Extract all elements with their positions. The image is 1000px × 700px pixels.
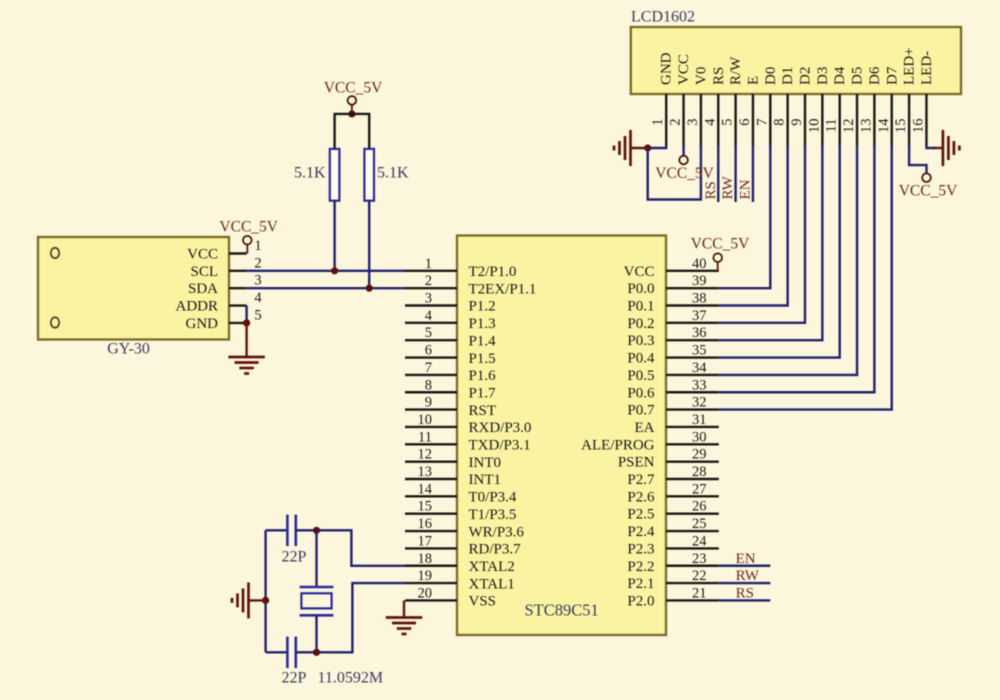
svg-text:P2.6: P2.6	[627, 489, 655, 505]
svg-text:33: 33	[692, 377, 707, 393]
junction R1-SCL	[331, 267, 338, 274]
U2 pin 10 D3 stub	[821, 94, 823, 146]
svg-text:RST: RST	[469, 403, 497, 419]
svg-text:VCC: VCC	[676, 54, 692, 85]
svg-text:XTAL1: XTAL1	[469, 576, 515, 592]
power port VCC_5V at resistors circle	[348, 96, 357, 105]
svg-text:14: 14	[418, 481, 433, 497]
U2 pin 7 D0 stub	[769, 94, 771, 146]
svg-text:20: 20	[418, 585, 433, 601]
U2 pin 2 VCC stub	[682, 94, 684, 146]
svg-text:34: 34	[692, 360, 707, 376]
svg-text:P2.1: P2.1	[627, 576, 654, 592]
U1 pin 29 PSEN stub	[666, 460, 719, 462]
svg-text:LCD1602: LCD1602	[631, 9, 695, 26]
U2 pin 5 R/W stub	[734, 94, 736, 146]
U2 pin 1 GND stub	[665, 94, 667, 146]
svg-text:PSEN: PSEN	[618, 455, 655, 471]
sensor module U3 GY-30 body	[38, 237, 229, 340]
U2 pin 3 V0 stub	[700, 94, 702, 146]
svg-text:LED-: LED-	[919, 51, 935, 85]
svg-text:RD/P3.7: RD/P3.7	[469, 542, 522, 558]
svg-text:6: 6	[425, 343, 432, 359]
svg-text:28: 28	[692, 464, 707, 480]
wire C2 to XTAL1 corner	[296, 583, 405, 652]
ground lead at crystal	[249, 599, 266, 601]
wire net SCL (U3 pin2 to U1 pin1)	[247, 270, 405, 272]
svg-text:P0.3: P0.3	[627, 333, 654, 349]
U1 pin 3 P1.2 stub	[405, 304, 457, 306]
svg-text:VCC_5V: VCC_5V	[691, 236, 750, 253]
svg-text:5: 5	[254, 307, 261, 323]
svg-text:5.1K: 5.1K	[294, 165, 326, 182]
capacitor C1 22P plates	[286, 515, 289, 546]
junction U3 GND node	[243, 319, 250, 326]
svg-text:D6: D6	[867, 66, 883, 85]
U1 pin 26 P2.5 stub	[666, 513, 719, 515]
svg-text:D0: D0	[763, 67, 779, 85]
U1 pin 4 P1.3 stub	[405, 322, 457, 324]
display U2 LCD1602 body	[631, 27, 961, 94]
wire D1 (U2 pin 8 to U1 pin 38)	[719, 146, 788, 306]
power port VCC_5V at U3 pin1 circle	[243, 236, 252, 245]
U1 pin 21 P2.0 stub	[666, 599, 719, 601]
power port VCC_5V at U2 pin2 circle	[679, 156, 688, 165]
svg-text:17: 17	[418, 533, 433, 549]
wire net RW at U2 pin 5	[734, 146, 736, 202]
U1 pin 30 ALE/PROG stub	[666, 443, 719, 445]
svg-text:GND: GND	[186, 316, 219, 332]
wire D2 (U2 pin 9 to U1 pin 37)	[719, 146, 805, 323]
U1 pin 32 P0.7 stub	[666, 408, 719, 410]
svg-text:22P: 22P	[282, 549, 307, 566]
svg-text:V0: V0	[693, 67, 709, 85]
U1 pin 36 P0.3 stub	[666, 339, 719, 341]
U1 pin 1 T2/P1.0 stub	[405, 270, 457, 272]
wire crystal top lead	[315, 530, 317, 587]
U1 pin 19 XTAL1 stub	[405, 582, 457, 584]
wire net SDA (U3 pin3 to U1 pin2)	[247, 287, 405, 289]
svg-text:VCC_5V: VCC_5V	[324, 80, 383, 97]
U1 pin 13 INT1 stub	[405, 478, 457, 480]
svg-text:13: 13	[418, 464, 433, 480]
svg-text:R/W: R/W	[728, 56, 744, 85]
svg-text:P0.5: P0.5	[627, 368, 654, 384]
U1 pin 24 P2.3 stub	[666, 547, 719, 549]
ground lead at LCD left	[631, 147, 648, 149]
U1 pin 35 P0.4 stub	[666, 356, 719, 358]
svg-text:16: 16	[418, 516, 433, 532]
power port VCC_5V at U2 pin15 circle	[922, 173, 931, 182]
ground symbol at crystal	[247, 582, 250, 618]
svg-text:22: 22	[692, 568, 707, 584]
svg-text:GY-30: GY-30	[107, 341, 150, 358]
U1 pin 17 RD/P3.7 stub	[405, 547, 457, 549]
U1 pin 20 VSS stub	[405, 599, 457, 601]
svg-text:4: 4	[702, 118, 718, 126]
svg-text:P1.7: P1.7	[469, 385, 497, 401]
U1 pin 9 RST stub	[405, 408, 457, 410]
svg-text:SDA: SDA	[188, 281, 218, 297]
svg-text:EA: EA	[635, 420, 655, 436]
wire D4 (U2 pin 11 to U1 pin 35)	[719, 146, 840, 358]
svg-text:26: 26	[692, 499, 707, 515]
wire net RS at U2 pin 4	[717, 146, 719, 202]
U3 mounting hole pin bottom	[51, 317, 59, 327]
crystal Y1 top plate	[300, 586, 334, 589]
svg-text:T2/P1.0: T2/P1.0	[469, 264, 517, 280]
svg-text:4: 4	[425, 308, 433, 324]
crystal Y1 body	[301, 593, 331, 608]
svg-text:D7: D7	[884, 66, 900, 85]
U1 pin 7 P1.6 stub	[405, 374, 457, 376]
svg-text:3: 3	[425, 291, 432, 307]
wire U2 pin15 LED+ to power	[909, 146, 926, 173]
svg-text:P1.3: P1.3	[469, 316, 496, 332]
svg-text:6: 6	[737, 119, 753, 126]
U1 pin 5 P1.4 stub	[405, 339, 457, 341]
U1 pin 23 P2.2 stub	[666, 565, 719, 567]
U2 pin 13 D6 stub	[873, 94, 875, 146]
U2 pin 15 LED+ stub	[908, 94, 910, 146]
U2 pin 8 D1 stub	[786, 94, 788, 146]
svg-text:VCC_5V: VCC_5V	[219, 219, 278, 236]
svg-text:3: 3	[254, 273, 261, 289]
svg-text:VCC_5V: VCC_5V	[899, 183, 958, 200]
svg-text:INT1: INT1	[469, 472, 502, 488]
svg-text:5.1K: 5.1K	[377, 165, 409, 182]
svg-text:T0/P3.4: T0/P3.4	[469, 490, 517, 506]
U1 pin 37 P0.2 stub	[666, 322, 719, 324]
wire U2 pin1 to ground	[648, 146, 667, 148]
svg-text:36: 36	[692, 325, 707, 341]
U3 pin 3 SDA stub	[229, 287, 247, 289]
U1 pin 2 T2EX/P1.1 stub	[405, 287, 457, 289]
svg-text:P2.0: P2.0	[627, 593, 654, 609]
svg-text:T2EX/P1.1: T2EX/P1.1	[469, 281, 537, 297]
svg-text:RW: RW	[736, 568, 760, 584]
svg-text:9: 9	[789, 119, 805, 126]
resistor R2 5.1K body	[364, 149, 374, 201]
U1 pin 39 P0.0 stub	[666, 287, 719, 289]
power port VCC_5V at U1 pin40 circle	[713, 253, 722, 262]
svg-text:P1.5: P1.5	[469, 351, 496, 367]
svg-text:ALE/PROG: ALE/PROG	[581, 437, 655, 453]
U1 pin 11 TXD/P3.1 stub	[405, 443, 457, 445]
junction R2-SDA	[366, 285, 373, 292]
svg-text:29: 29	[692, 447, 707, 463]
svg-text:32: 32	[692, 395, 707, 411]
svg-text:P0.4: P0.4	[627, 351, 655, 367]
U2 pin 11 D4 stub	[839, 94, 841, 146]
svg-text:39: 39	[692, 273, 707, 289]
wire net EN at U2 pin 6	[752, 146, 754, 202]
svg-text:12: 12	[418, 447, 433, 463]
svg-text:SCL: SCL	[190, 264, 218, 280]
wire R2 bottom to SDA	[368, 201, 370, 289]
ground lead at LCD right	[933, 147, 943, 149]
U1 pin 18 XTAL2 stub	[405, 565, 457, 567]
wire U2 pin2 to power	[682, 146, 684, 156]
svg-text:30: 30	[692, 429, 707, 445]
U3 pin 1 VCC stub	[229, 252, 247, 254]
svg-text:D4: D4	[832, 66, 848, 85]
ground symbol at LCD left	[629, 130, 632, 166]
wire V0 to ground loop	[648, 146, 701, 200]
U1 pin 31 EA stub	[666, 426, 719, 428]
U1 pin 25 P2.4 stub	[666, 530, 719, 532]
svg-text:15: 15	[418, 499, 433, 515]
svg-text:P1.6: P1.6	[469, 368, 497, 384]
svg-text:13: 13	[858, 119, 874, 134]
svg-text:P1.4: P1.4	[469, 333, 497, 349]
svg-text:31: 31	[692, 412, 707, 428]
svg-text:P2.2: P2.2	[627, 559, 654, 575]
power port VCC_5V at resistors lead	[351, 105, 353, 114]
wire net RW (U1 pin22)	[719, 582, 771, 584]
U1 pin 16 WR/P3.6 stub	[405, 530, 457, 532]
U2 pin 14 D7 stub	[891, 94, 893, 146]
U2 pin 9 D2 stub	[804, 94, 806, 146]
power port VCC_5V at U1 pin40 lead	[717, 262, 719, 271]
svg-text:TXD/P3.1: TXD/P3.1	[469, 438, 531, 454]
ground lead at U3	[245, 323, 247, 357]
U2 pin 4 RS stub	[717, 94, 719, 146]
svg-text:P0.1: P0.1	[627, 299, 654, 315]
IC U1 STC89C51 body	[457, 236, 666, 636]
svg-text:5: 5	[720, 119, 736, 126]
svg-text:P0.2: P0.2	[627, 316, 654, 332]
capacitor C2 22P plates	[286, 637, 289, 668]
svg-text:P1.2: P1.2	[469, 299, 496, 315]
svg-text:P0.0: P0.0	[627, 281, 654, 297]
U1 pin 27 P2.6 stub	[666, 495, 719, 497]
ground symbol at LCD right	[942, 130, 945, 166]
U3 pin 2 SCL stub	[229, 270, 247, 272]
svg-text:1: 1	[425, 256, 432, 272]
U2 pin 12 D5 stub	[856, 94, 858, 146]
junction crystal top	[313, 527, 320, 534]
crystal Y1 bottom plate	[300, 614, 334, 617]
svg-text:EN: EN	[737, 179, 753, 199]
svg-text:VCC: VCC	[624, 264, 655, 280]
svg-text:8: 8	[772, 119, 788, 126]
U1 pin 33 P0.6 stub	[666, 391, 719, 393]
svg-text:22P: 22P	[282, 670, 307, 687]
svg-text:8: 8	[425, 377, 432, 393]
svg-text:D5: D5	[850, 67, 866, 85]
svg-text:VCC_5V: VCC_5V	[655, 165, 714, 182]
U3 mounting hole pin top	[51, 248, 59, 258]
svg-text:5: 5	[425, 325, 432, 341]
ground symbol at U3	[228, 356, 265, 359]
wire D0 (U2 pin 7 to U1 pin 39)	[719, 146, 771, 288]
U1 pin 28 P2.7 stub	[666, 478, 719, 480]
svg-text:9: 9	[425, 395, 432, 411]
svg-text:D3: D3	[815, 67, 831, 85]
svg-text:P2.5: P2.5	[627, 507, 654, 523]
wire crystal left rail	[264, 530, 266, 652]
svg-text:P0.6: P0.6	[627, 385, 655, 401]
wire D7 (U2 pin 14 to U1 pin 32)	[719, 146, 892, 410]
U2 pin 16 LED- stub	[925, 94, 927, 146]
svg-text:38: 38	[692, 291, 707, 307]
U1 pin 10 RXD/P3.0 stub	[405, 426, 457, 428]
junction crystal ground node	[262, 597, 269, 604]
wire top to C1	[266, 529, 288, 531]
svg-text:24: 24	[692, 533, 707, 549]
junction VCC bar node	[348, 110, 355, 117]
U1 pin 15 T1/P3.5 stub	[405, 513, 457, 515]
svg-text:14: 14	[876, 118, 892, 133]
svg-text:25: 25	[692, 516, 707, 532]
wire net EN (U1 pin23)	[719, 565, 771, 567]
U1 pin 6 P1.5 stub	[405, 356, 457, 358]
svg-text:2: 2	[425, 273, 432, 289]
svg-text:XTAL2: XTAL2	[469, 559, 515, 575]
ground symbol at VSS	[386, 616, 423, 619]
svg-text:1: 1	[254, 238, 261, 254]
svg-text:40: 40	[692, 256, 707, 272]
svg-text:RS: RS	[736, 585, 754, 601]
svg-text:EN: EN	[736, 551, 756, 567]
svg-text:STC89C51: STC89C51	[524, 601, 598, 620]
junction crystal bottom	[313, 649, 320, 656]
svg-text:11: 11	[418, 429, 432, 445]
wire C1 to XTAL2 corner	[296, 530, 405, 566]
svg-text:37: 37	[692, 308, 707, 324]
svg-text:19: 19	[418, 568, 433, 584]
U1 pin 22 P2.1 stub	[666, 582, 719, 584]
svg-text:35: 35	[692, 343, 707, 359]
wire R1 bottom to SCL	[333, 201, 335, 271]
svg-text:ADDR: ADDR	[175, 299, 218, 315]
wire VCC bar to resistor tops	[335, 114, 370, 149]
svg-text:2: 2	[668, 119, 684, 126]
svg-text:21: 21	[692, 585, 707, 601]
svg-text:10: 10	[806, 119, 822, 134]
svg-text:RS: RS	[711, 67, 727, 85]
svg-text:RW: RW	[720, 175, 736, 199]
svg-text:RS: RS	[703, 181, 719, 199]
svg-text:11.0592M: 11.0592M	[318, 670, 384, 687]
svg-text:RXD/P3.0: RXD/P3.0	[469, 420, 532, 436]
svg-text:10: 10	[418, 412, 433, 428]
svg-text:11: 11	[824, 119, 840, 133]
svg-text:4: 4	[254, 290, 262, 306]
svg-text:18: 18	[418, 551, 433, 567]
U3 pin 4 ADDR stub	[229, 304, 247, 306]
U2 pin 6 E stub	[752, 94, 754, 146]
svg-text:P2.4: P2.4	[627, 524, 655, 540]
wire D5 (U2 pin 12 to U1 pin 34)	[719, 146, 857, 375]
resistor R1 5.1K body	[330, 149, 340, 201]
U1 pin 14 T0/P3.4 stub	[405, 495, 457, 497]
svg-text:3: 3	[685, 119, 701, 126]
svg-text:P2.3: P2.3	[627, 541, 654, 557]
wire D3 (U2 pin 10 to U1 pin 36)	[719, 146, 823, 340]
wire D6 (U2 pin 13 to U1 pin 33)	[719, 146, 875, 392]
wire VSS to ground	[403, 601, 405, 618]
wire U2 pin16 LED- to ground	[927, 146, 936, 148]
svg-text:23: 23	[692, 551, 707, 567]
svg-text:27: 27	[692, 481, 707, 497]
svg-text:12: 12	[841, 119, 857, 134]
svg-text:7: 7	[425, 360, 432, 376]
U3 pin 5 GND stub	[229, 322, 247, 324]
svg-text:D1: D1	[780, 67, 796, 85]
svg-text:P0.7: P0.7	[627, 403, 655, 419]
svg-text:P2.7: P2.7	[627, 472, 655, 488]
svg-text:INT0: INT0	[469, 455, 502, 471]
svg-text:1: 1	[650, 119, 666, 126]
wire bottom to C2	[266, 651, 288, 653]
U1 pin 40 VCC stub	[666, 270, 719, 272]
svg-text:E: E	[745, 76, 761, 85]
svg-text:T1/P3.5: T1/P3.5	[469, 507, 517, 523]
svg-text:VSS: VSS	[469, 594, 497, 610]
power port VCC_5V at U3 pin1 lead	[246, 244, 248, 254]
svg-text:15: 15	[893, 119, 909, 134]
junction LCD ground node	[644, 144, 651, 151]
svg-text:VCC: VCC	[187, 247, 218, 263]
wire crystal bottom lead	[315, 615, 317, 652]
svg-text:2: 2	[254, 255, 261, 271]
wire net RS (U1 pin21)	[719, 599, 771, 601]
svg-text:7: 7	[754, 119, 770, 126]
U1 pin 38 P0.1 stub	[666, 304, 719, 306]
svg-text:LED+: LED+	[902, 47, 918, 85]
U1 pin 8 P1.7 stub	[405, 391, 457, 393]
svg-text:GND: GND	[659, 52, 675, 85]
U1 pin 34 P0.5 stub	[666, 374, 719, 376]
svg-text:D2: D2	[798, 67, 814, 85]
wire U3 ADDR down to GND	[245, 306, 247, 323]
U1 pin 12 INT0 stub	[405, 460, 457, 462]
svg-text:WR/P3.6: WR/P3.6	[469, 524, 525, 540]
svg-text:16: 16	[910, 119, 926, 134]
